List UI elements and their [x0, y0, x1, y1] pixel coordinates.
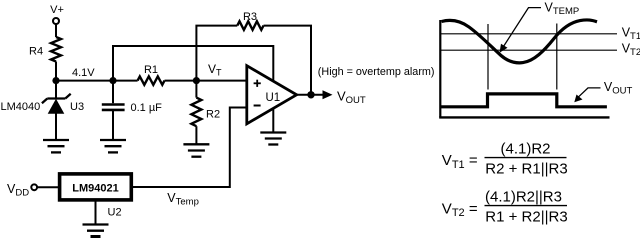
ground (op-amp): [260, 133, 286, 145]
IC U2 LM94021 box: [60, 174, 132, 200]
arrow VOUT output: [323, 90, 333, 99]
wire zener to ground: [55, 113, 57, 140]
wire op-amp ground pin: [272, 108, 274, 132]
wire LM94021 output to minus input: [131, 108, 247, 188]
resistor R4: [51, 37, 61, 62]
wire node to zener U3: [55, 81, 57, 99]
wire V+ to R4: [55, 24, 57, 37]
node V+ terminal: [53, 18, 59, 24]
svg-text:(4.1)R2||R3: (4.1)R2||R3: [485, 189, 562, 206]
arrow leader VTEMP: [503, 8, 542, 48]
resistor R1: [138, 76, 165, 84]
resistor R2: [191, 98, 201, 127]
wire 4.1V rail: [56, 80, 138, 82]
op-amp plus pin mark: [254, 80, 261, 87]
svg-text:LM94021: LM94021: [72, 183, 118, 195]
svg-text:(High = overtemp alarm): (High = overtemp alarm): [318, 66, 435, 78]
node VT junction dot: [193, 77, 200, 84]
svg-text:R2: R2: [206, 109, 220, 121]
diode U3 LM4040 (zener): [42, 94, 71, 103]
svg-text:V+: V+: [50, 4, 64, 16]
wire left axis: [439, 20, 441, 117]
wire LM94021 to ground: [95, 200, 97, 225]
wire VT node down to R2: [195, 81, 197, 98]
wire node to capacitor: [112, 81, 114, 104]
resistor R3: [237, 21, 263, 30]
node output junction dot: [307, 91, 314, 98]
node VDD terminal: [31, 184, 37, 190]
node 4.1V junction dot (R4): [52, 77, 59, 84]
svg-text:R3: R3: [243, 11, 257, 23]
wire R2 to ground: [195, 126, 197, 144]
wire VDD to LM94021: [37, 186, 59, 188]
svg-text:(4.1)R2: (4.1)R2: [500, 141, 550, 158]
arrow leader VOUT: [577, 88, 601, 98]
waveform plot axes: [439, 8, 617, 118]
wire op-amp output: [297, 94, 323, 96]
wire R1 to op-amp plus input: [165, 80, 247, 82]
capacitor C1 0.1uF: [102, 105, 125, 110]
wire threshold VT2 line: [440, 49, 617, 51]
svg-text:U3: U3: [70, 101, 84, 113]
ground (R2): [183, 144, 209, 156]
wire fraction bar 2: [485, 205, 568, 207]
svg-text:0.1 µF: 0.1 µF: [131, 102, 163, 114]
svg-text:R2 + R1||R3: R2 + R1||R3: [485, 161, 567, 178]
svg-text:LM4040: LM4040: [1, 101, 41, 113]
wire crossing vertical 2: [556, 24, 558, 90]
ground (capacitor): [100, 140, 126, 152]
wire threshold VT1 line: [440, 33, 617, 35]
svg-text:R4: R4: [29, 46, 43, 58]
wire R3 to output node: [264, 26, 312, 95]
svg-text:U1: U1: [266, 92, 281, 104]
wire capacitor to ground: [112, 111, 114, 140]
arrowhead VOUT: [574, 95, 582, 103]
ground (zener U3): [43, 140, 69, 152]
svg-text:R1 + R2||R3: R1 + R2||R3: [485, 208, 567, 225]
op-amp minus pin mark: [254, 105, 261, 107]
svg-text:4.1V: 4.1V: [72, 67, 95, 79]
svg-text:R1: R1: [144, 64, 158, 76]
wire fraction bar 1: [485, 157, 567, 159]
wire crossing vertical 1: [487, 24, 489, 90]
wire R4 to 4.1V node: [55, 62, 57, 81]
trace VOUT square wave: [440, 94, 607, 107]
arrowhead VTEMP: [500, 44, 508, 53]
op-amp U1: [247, 66, 297, 124]
wire VT node up to R3: [196, 26, 237, 81]
ground (LM94021): [83, 225, 109, 237]
svg-text:U2: U2: [108, 207, 122, 219]
node junction dot (cap/supply): [109, 77, 116, 84]
curve VTEMP sine wave: [442, 20, 598, 63]
wire supply branch to op-amp V+ pin: [113, 46, 273, 81]
wire bottom axis: [439, 116, 609, 118]
